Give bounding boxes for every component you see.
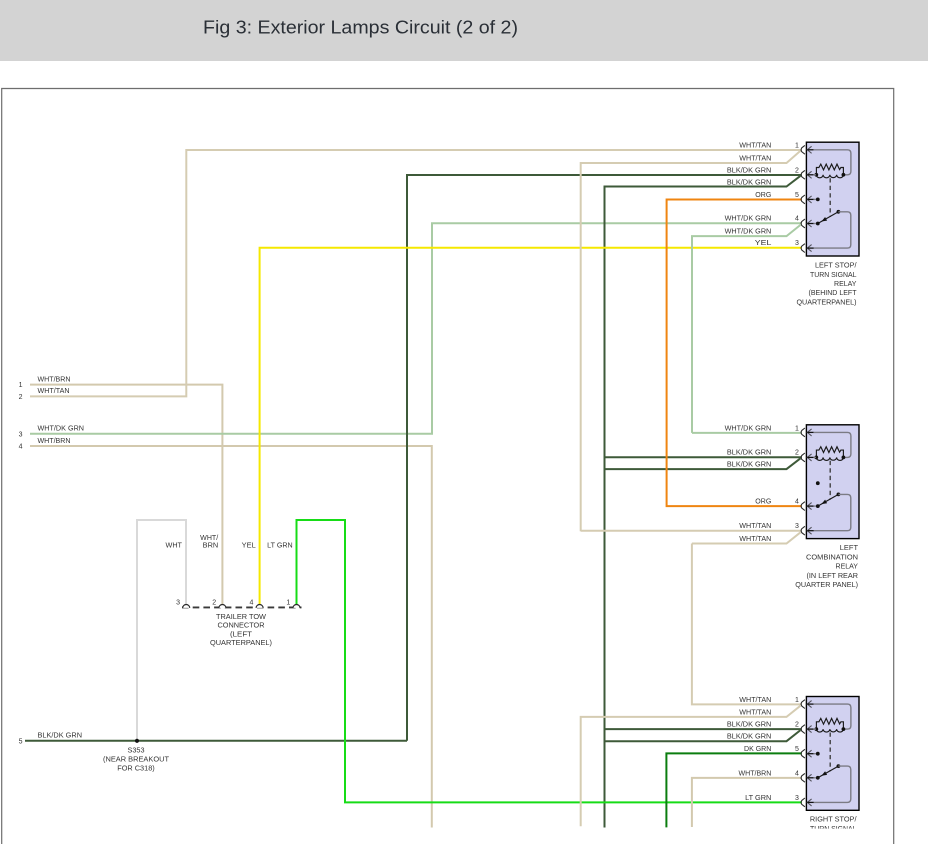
wire WHT/DK GRN branch to relay K2 pin 1 — [692, 432, 802, 434]
label circuit 1: WHT/BRN — [19, 376, 71, 389]
relay K2 pin 4 terminal — [801, 502, 816, 511]
svg-text:COMBINATION: COMBINATION — [806, 552, 858, 561]
wire BLK/DK GRN splice S353 riser to relay K1 pin 2 — [407, 175, 802, 741]
svg-text:3: 3 — [795, 523, 799, 530]
label pin 1: WHT/DK GRN — [725, 425, 799, 432]
svg-text:ORG: ORG — [755, 192, 771, 199]
wire YEL from trailer tow pin 4 to relay K1 pin 3 — [260, 248, 802, 605]
label pin 4: ORG — [755, 499, 799, 506]
label pin 5: ORG — [755, 192, 799, 199]
svg-text:WHT/TAN: WHT/TAN — [739, 709, 771, 716]
svg-text:WHT/BRN: WHT/BRN — [38, 376, 71, 383]
connector C2 pin 4 socket — [249, 600, 263, 608]
relay K3: box — [806, 697, 859, 811]
label circuit 3: WHT/DK GRN — [19, 426, 84, 439]
wire C1-4 WHT/BRN (down stub) — [30, 446, 432, 828]
svg-text:2: 2 — [795, 167, 799, 174]
label pin 3: YEL — [755, 240, 799, 247]
label pin 4: WHT/DK GRN — [725, 216, 799, 223]
svg-text:QUARTERPANEL): QUARTERPANEL) — [210, 640, 272, 647]
label pin 3: LT GRN — [745, 795, 799, 802]
wire BLK/DK GRN branch to relay K3 pin 2 (lower) — [606, 730, 801, 741]
relay K2 NC contact (no external pin) — [816, 481, 820, 485]
svg-text:BLK/DK GRN: BLK/DK GRN — [727, 734, 771, 741]
wire C1-3 WHT/DK GRN to relay K1 pin 4 — [30, 223, 802, 434]
svg-text:2: 2 — [19, 394, 23, 401]
relay K3 coil (between pins 1 and 2) — [814, 718, 845, 732]
svg-text:LT GRN: LT GRN — [745, 795, 771, 802]
svg-text:BLK/DK GRN: BLK/DK GRN — [727, 180, 771, 187]
svg-text:WHT/TAN: WHT/TAN — [739, 523, 771, 530]
svg-text:QUARTERPANEL): QUARTERPANEL) — [797, 297, 857, 306]
svg-text:WHT/DK GRN: WHT/DK GRN — [725, 216, 772, 223]
relay K2 actuator dashed link — [829, 461, 831, 500]
svg-text:CONNECTOR: CONNECTOR — [218, 623, 265, 630]
relay K3 actuator dashed link — [829, 733, 831, 772]
svg-text:4: 4 — [795, 216, 799, 223]
label splice S353 — [103, 747, 170, 772]
relay K3 NO contact path to pin 3 — [813, 766, 850, 802]
svg-text:WHT/TAN: WHT/TAN — [739, 142, 771, 149]
svg-text:LEFT STOP/: LEFT STOP/ — [815, 261, 857, 270]
svg-text:RIGHT STOP/: RIGHT STOP/ — [810, 815, 857, 824]
svg-text:2: 2 — [795, 722, 799, 729]
svg-text:3: 3 — [795, 240, 799, 247]
svg-text:(IN LEFT REAR: (IN LEFT REAR — [807, 571, 859, 580]
relay K1 switch arm (pin 4 common) — [816, 210, 840, 226]
wire BLK/DK GRN bus to relay pins 2 (K1,K2,K3) — [605, 176, 801, 828]
svg-text:ORG: ORG — [755, 499, 771, 506]
connector C2: trailer tow connector (dashed body) — [182, 606, 302, 608]
wire WHT/DK GRN to relay K1 pin 4 (lower) and relay K2 pin 1 — [692, 225, 801, 433]
relay K1 pin 5 terminal (NC contact) — [801, 195, 820, 204]
relay K3 pin 2 terminal — [801, 725, 816, 734]
svg-text:WHT/TAN: WHT/TAN — [739, 155, 771, 162]
label pin 3: WHT/TAN — [739, 523, 799, 530]
relay K2 pin 2 terminal — [801, 453, 816, 462]
label wire WHT/DK GRN — [725, 229, 772, 236]
svg-text:QUARTER PANEL): QUARTER PANEL) — [795, 580, 858, 589]
connector C2 pin 2 socket — [212, 600, 226, 608]
svg-text:WHT/: WHT/ — [200, 535, 218, 542]
wire C1-1 WHT/BRN to trailer tow pin 2 — [30, 385, 222, 606]
connector C2 pin 3 socket — [176, 600, 190, 608]
relay K3 pin 1 terminal — [801, 700, 851, 729]
label wire BLK/DK GRN — [727, 180, 771, 187]
label relay K2 — [795, 543, 858, 589]
svg-text:1: 1 — [795, 425, 799, 432]
relay K3 pin 4 terminal — [801, 773, 816, 782]
svg-text:3: 3 — [19, 431, 23, 438]
svg-text:WHT/DK GRN: WHT/DK GRN — [725, 229, 772, 236]
relay K1 pin 2 terminal — [801, 170, 816, 179]
svg-text:(LEFT: (LEFT — [230, 631, 253, 638]
wire WHT/TAN stub to relay K3 pin 1 — [581, 706, 801, 827]
label pin 4: WHT/BRN — [739, 770, 799, 777]
splice S353 — [135, 739, 139, 743]
svg-text:3: 3 — [795, 795, 799, 802]
svg-text:WHT/TAN: WHT/TAN — [739, 536, 771, 543]
label connector C2 — [210, 614, 272, 647]
wire LT GRN from trailer tow pin 1 to relay K3 pin 3 — [297, 520, 802, 802]
relay K2 pin 1 terminal — [801, 428, 851, 457]
svg-text:2: 2 — [795, 450, 799, 457]
svg-text:WHT/TAN: WHT/TAN — [38, 388, 70, 395]
svg-text:WHT/DK GRN: WHT/DK GRN — [38, 426, 85, 433]
svg-text:Fig 3: Exterior Lamps Circuit: Fig 3: Exterior Lamps Circuit (2 of 2) — [203, 17, 518, 37]
wire WHT/TAN link relay K2 pin 3 to relay K3 pin 1 — [692, 532, 801, 543]
wire C1-2 WHT/TAN to relay K1 pin 1 — [30, 150, 802, 396]
svg-text:BRN: BRN — [203, 543, 219, 550]
wire WHT/TAN riser to relay K1 pin 1 and relay K2 pin 3 — [581, 151, 801, 531]
label pin 2: BLK/DK GRN — [727, 722, 799, 729]
wire C1-5 BLK/DK GRN to splice S353 — [25, 740, 407, 742]
label wire WHT/BRN — [200, 535, 218, 550]
svg-text:BLK/DK GRN: BLK/DK GRN — [727, 462, 771, 469]
svg-text:TURN SIGNAL: TURN SIGNAL — [810, 270, 857, 279]
svg-text:S353: S353 — [128, 747, 145, 754]
wire BLK/DK GRN branch to relay K3 pin 2 — [605, 728, 802, 730]
label pin 5: DK GRN — [744, 746, 799, 753]
svg-text:LT GRN: LT GRN — [267, 543, 293, 550]
svg-text:FOR C318): FOR C318) — [117, 766, 155, 773]
relay K1 pin 4 terminal — [801, 219, 816, 228]
svg-text:1: 1 — [286, 600, 290, 607]
svg-text:YEL: YEL — [755, 240, 772, 247]
wire WHT from splice S353 to trailer tow pin 3 — [137, 520, 186, 741]
label wire WHT/TAN — [739, 155, 771, 162]
label wire BLK/DK GRN — [727, 462, 771, 469]
relay K1 coil (between pins 1 and 2) — [814, 164, 845, 178]
svg-text:4: 4 — [19, 444, 23, 451]
label wire BLK/DK GRN — [727, 734, 771, 741]
svg-text:1: 1 — [795, 142, 799, 149]
label pin 1: WHT/TAN — [739, 697, 799, 704]
wire WHT/TAN link vertical — [692, 544, 802, 705]
svg-text:4: 4 — [795, 770, 799, 777]
wire BLK/DK GRN branch to relay K2 pin 2 (lower) — [606, 458, 801, 469]
svg-text:WHT: WHT — [166, 543, 183, 550]
relay K3 pin 5 terminal (NC contact) — [801, 749, 820, 758]
svg-text:YEL: YEL — [242, 543, 256, 550]
svg-text:4: 4 — [795, 499, 799, 506]
label wire WHT/TAN — [739, 536, 771, 543]
relay K1 NO contact path to pin 3 — [813, 212, 850, 248]
svg-text:2: 2 — [212, 600, 216, 607]
wire DK GRN stub to relay K3 pin 5 — [666, 753, 801, 827]
relay K1 pin 1 terminal — [801, 145, 851, 174]
relay K1: box — [806, 142, 859, 256]
relay K3 switch arm (pin 4 common) — [816, 764, 840, 780]
label wire WHT/TAN — [739, 709, 771, 716]
label circuit 5: BLK/DK GRN — [19, 733, 82, 746]
svg-text:LEFT: LEFT — [840, 543, 859, 552]
label pin 1: WHT/TAN — [739, 142, 799, 149]
wire BLK/DK GRN branch to relay K2 pin 2 — [605, 456, 802, 458]
svg-text:BLK/DK GRN: BLK/DK GRN — [38, 733, 83, 740]
label pin 2: BLK/DK GRN — [727, 450, 799, 457]
svg-text:TRAILER TOW: TRAILER TOW — [216, 614, 266, 621]
svg-text:BLK/DK GRN: BLK/DK GRN — [727, 167, 771, 174]
svg-text:WHT/DK GRN: WHT/DK GRN — [725, 425, 772, 432]
svg-text:5: 5 — [795, 192, 799, 199]
wire WHT/BRN stub to relay K3 pin 4 — [692, 778, 802, 827]
svg-text:(BEHIND LEFT: (BEHIND LEFT — [809, 288, 858, 297]
svg-text:5: 5 — [19, 738, 23, 745]
header title bar — [0, 0, 928, 61]
relay K2 NO contact path to pin 3 — [813, 494, 850, 530]
svg-text:3: 3 — [176, 600, 180, 607]
wire ORG relay K1 pin 5 to relay K2 pin 4 — [667, 200, 802, 507]
svg-text:1: 1 — [795, 697, 799, 704]
connector C2 pin 1 socket — [286, 600, 300, 608]
label relay K1 — [797, 261, 858, 307]
label circuit 2: WHT/TAN — [19, 388, 70, 401]
svg-text:RELAY: RELAY — [836, 562, 859, 571]
svg-text:4: 4 — [249, 600, 253, 607]
svg-text:DK GRN: DK GRN — [744, 746, 771, 753]
svg-text:WHT/TAN: WHT/TAN — [739, 697, 771, 704]
relay K1 pin 3 terminal — [801, 244, 814, 253]
relay K1 actuator dashed link — [829, 178, 831, 217]
relay K3 pin 3 terminal — [801, 798, 814, 807]
relay K2 pin 3 terminal — [801, 526, 814, 535]
relay K2 coil (between pins 1 and 2) — [814, 447, 845, 461]
label circuit 4: WHT/BRN — [19, 438, 71, 451]
label pin 2: BLK/DK GRN — [727, 167, 799, 174]
relay K2: box — [806, 425, 859, 539]
svg-text:BLK/DK GRN: BLK/DK GRN — [727, 722, 771, 729]
svg-text:RELAY: RELAY — [834, 279, 857, 288]
svg-text:5: 5 — [795, 746, 799, 753]
svg-text:BLK/DK GRN: BLK/DK GRN — [727, 450, 771, 457]
wire WHT/TAN branch to relay K2 pin 3 — [581, 530, 802, 532]
svg-text:WHT/BRN: WHT/BRN — [739, 770, 772, 777]
svg-text:WHT/BRN: WHT/BRN — [38, 438, 71, 445]
svg-text:(NEAR BREAKOUT: (NEAR BREAKOUT — [103, 757, 170, 764]
svg-text:1: 1 — [19, 382, 23, 389]
relay K2 switch arm (pin 4 common) — [816, 493, 840, 509]
